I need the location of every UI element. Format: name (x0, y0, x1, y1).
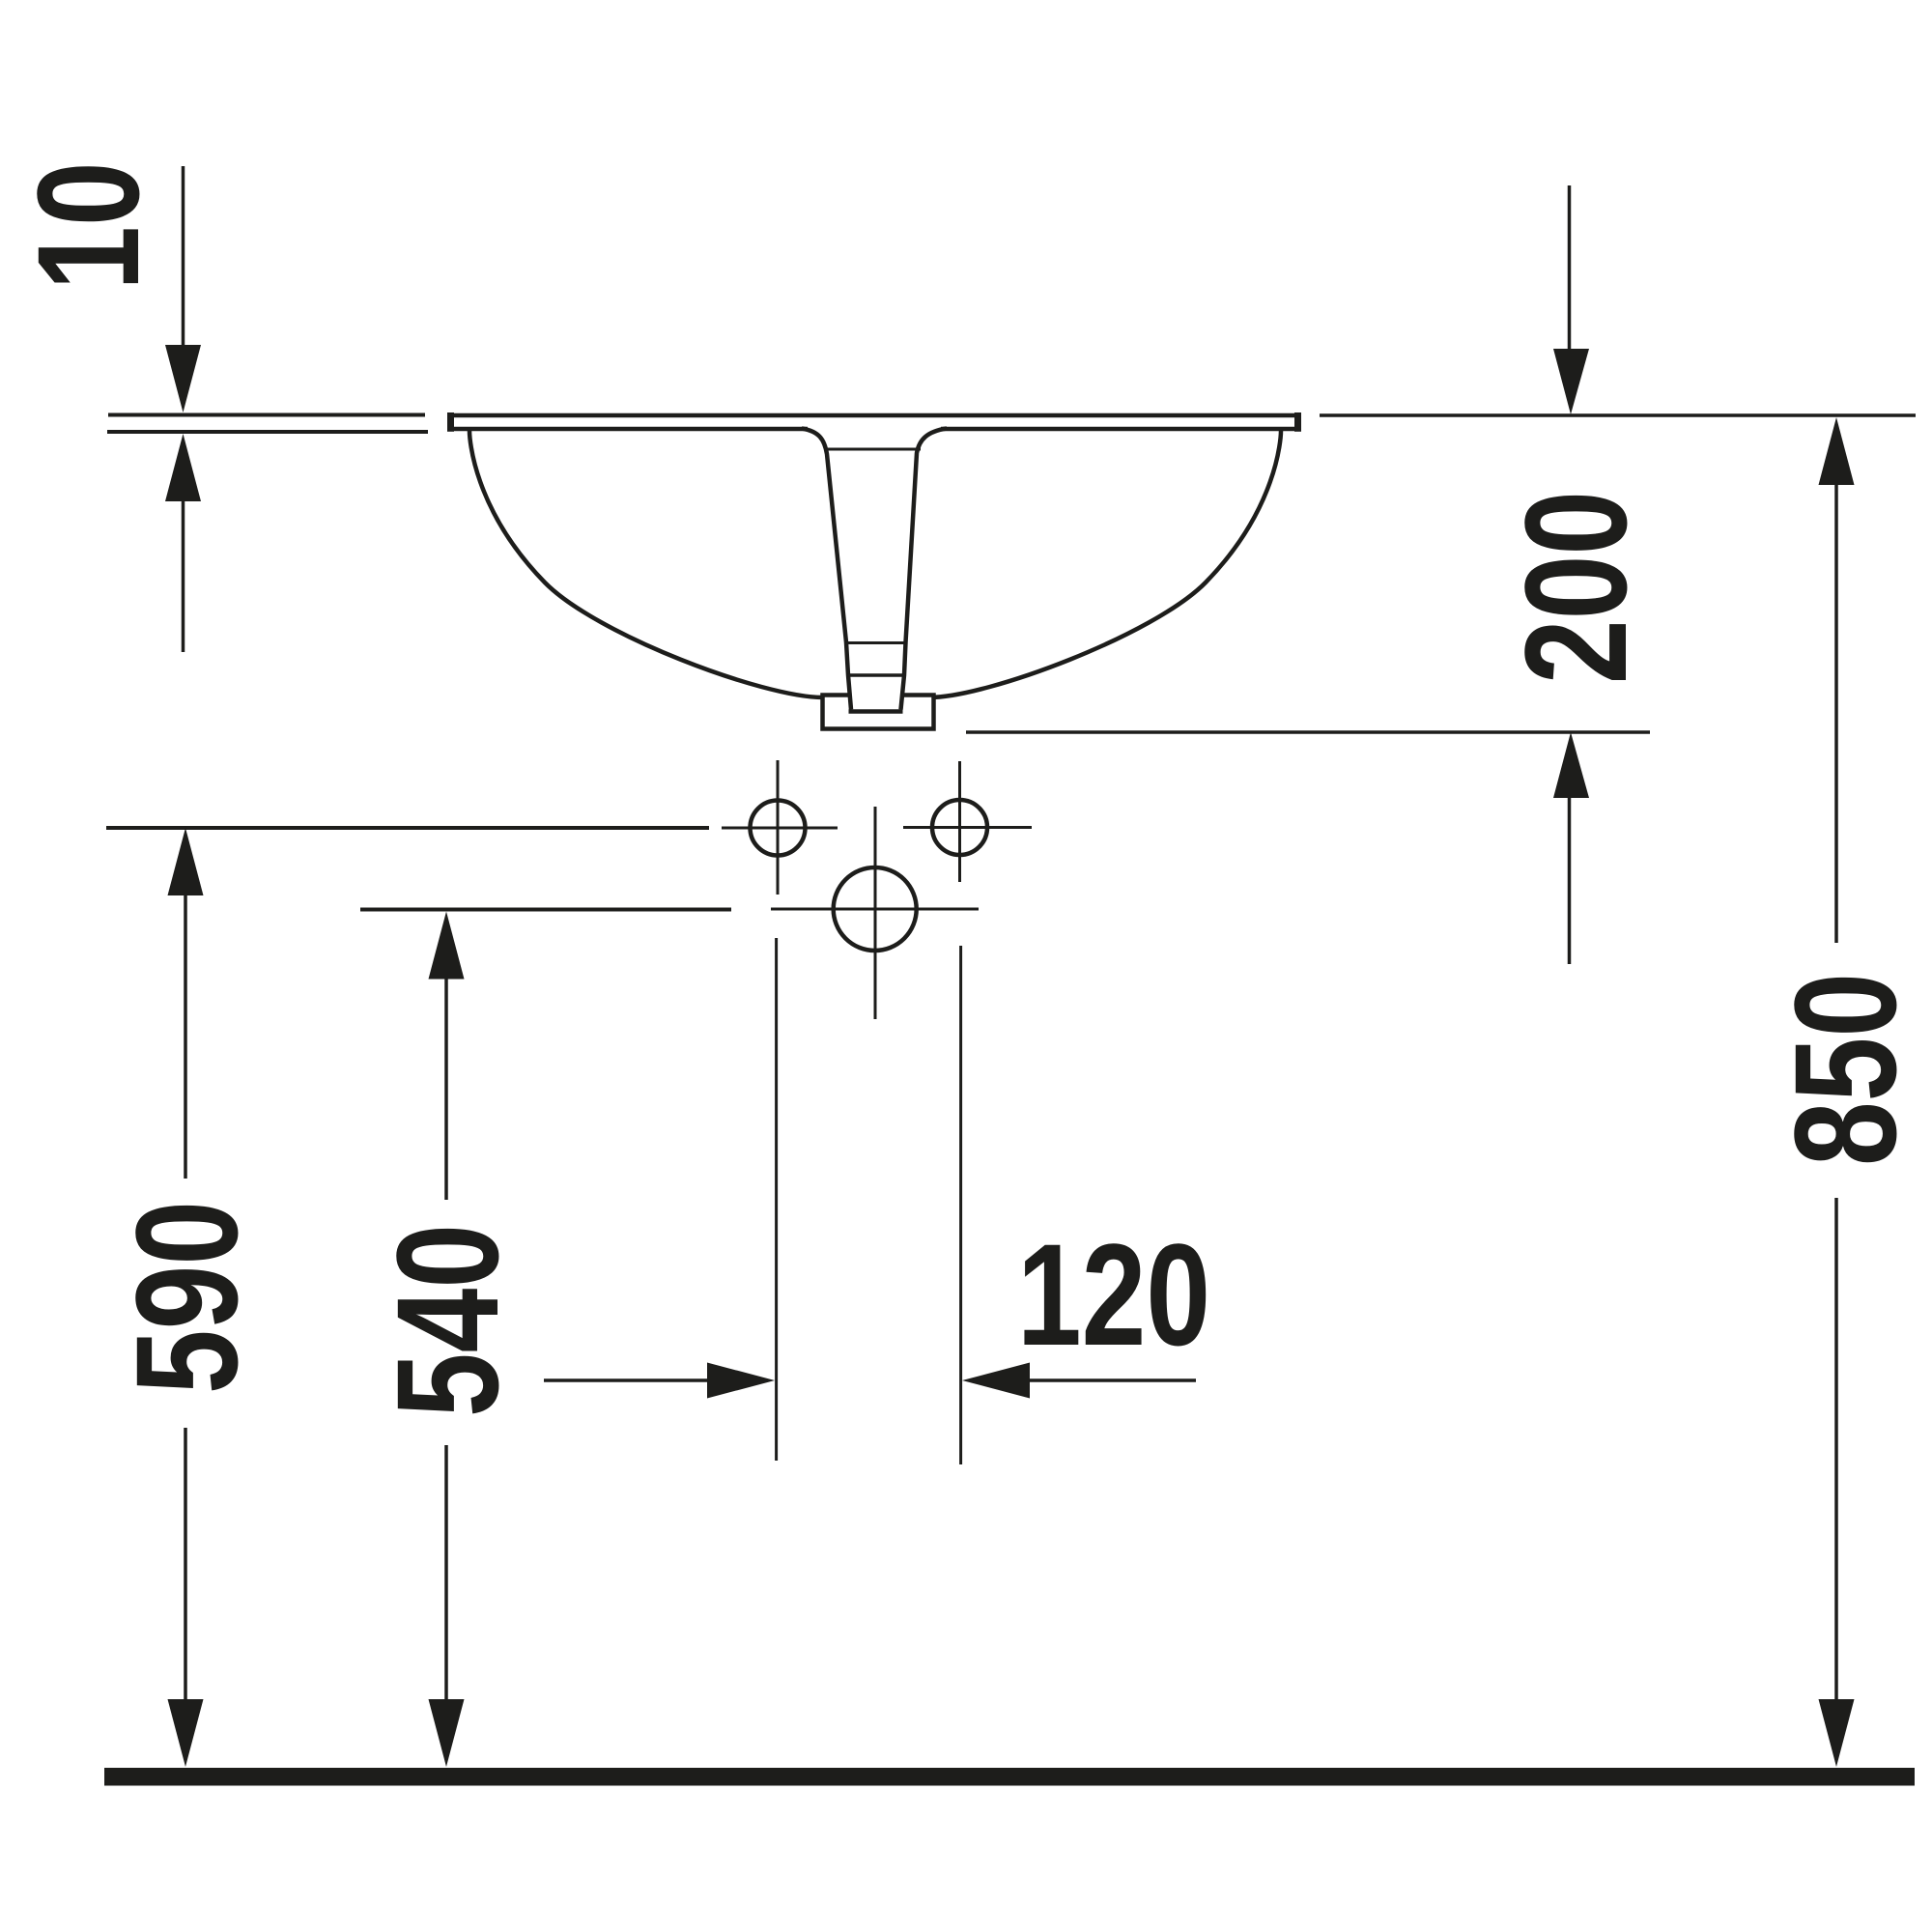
arrowhead dim10 up (165, 434, 201, 501)
drain funnel white fill (808, 418, 941, 710)
right faucet hole crosshair horizontal (903, 826, 1032, 829)
arrowhead dim850 up (1819, 417, 1855, 485)
bowl outer wall right curve (929, 431, 1281, 697)
faucet reference line y540 (360, 908, 731, 912)
arrowhead dim200 up (1553, 732, 1589, 798)
left faucet hole crosshair vertical (777, 760, 780, 895)
drain tailpiece bottom line (849, 709, 903, 714)
arrowhead dim590 down (168, 1699, 204, 1767)
svg-text:540: 540 (366, 1224, 528, 1417)
center hole crosshair vertical (874, 807, 877, 1019)
arrowhead dim590 up (168, 828, 204, 895)
countertop right line (1320, 413, 1916, 417)
funnel overflow top line (826, 448, 921, 451)
bowl outer wall left curve (469, 431, 823, 697)
dim 540 lower line (444, 1445, 448, 1708)
drain funnel right wall (901, 429, 948, 710)
arrowhead dim540 up (429, 912, 465, 980)
dim 540 upper line (444, 974, 448, 1200)
right faucet hole crosshair vertical (958, 761, 961, 882)
countertop left top line (108, 413, 425, 417)
svg-text:10: 10 (7, 161, 169, 290)
center faucet hole circle (834, 867, 917, 951)
dim 10 upper line (182, 166, 185, 355)
center hole crosshair horizontal (771, 908, 979, 911)
faucet reference line y590 (106, 826, 709, 830)
washbasin rim bottom line right (939, 427, 1299, 432)
line from drain to 200 arrow (966, 730, 1650, 734)
arrowhead dim10 down (165, 345, 201, 412)
arrowhead dim540 down (429, 1699, 465, 1767)
countertop left bottom line (107, 430, 428, 434)
svg-text:120: 120 (1017, 1213, 1210, 1376)
dim 850 lower line (1834, 1198, 1838, 1708)
arrowhead dim120 left (962, 1363, 1030, 1399)
washbasin rim bottom line left (449, 427, 810, 432)
svg-text:200: 200 (1494, 491, 1657, 684)
dim 200 lower line (1568, 790, 1572, 964)
120 extension line right (959, 946, 962, 1464)
dim 120 left line (544, 1378, 717, 1382)
drain flange rectangle (823, 696, 934, 729)
washbasin rim top line (449, 413, 1299, 418)
drain funnel left wall (802, 429, 851, 710)
arrowhead dim850 down (1819, 1699, 1855, 1767)
right faucet hole circle (932, 800, 987, 855)
dim 590 lower line (184, 1428, 187, 1708)
dim 590 upper line (184, 886, 187, 1179)
floor line (104, 1768, 1915, 1786)
arrowhead dim200 down (1553, 349, 1589, 414)
arrowhead dim120 right (707, 1363, 775, 1399)
left faucet hole crosshair horizontal (722, 827, 838, 830)
left faucet hole circle (751, 801, 806, 856)
svg-text:850: 850 (1764, 973, 1926, 1166)
dim 10 lower line (182, 492, 185, 652)
dim 200 upper line (1568, 185, 1572, 356)
120 extension line left (775, 938, 778, 1461)
dim 850 upper line (1834, 475, 1838, 943)
funnel joint line lower (847, 673, 904, 677)
dim 120 right line (1020, 1378, 1196, 1382)
washbasin rim left end cap (447, 412, 454, 432)
funnel joint line upper (845, 641, 905, 644)
svg-text:590: 590 (105, 1201, 268, 1394)
washbasin rim right end cap (1294, 412, 1301, 432)
